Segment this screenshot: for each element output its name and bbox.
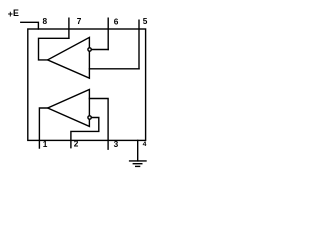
wire op-amp B inverting input to pin 2 — [71, 118, 99, 148]
op-amp B (bottom, points left) — [48, 90, 90, 127]
svg-text:6: 6 — [114, 17, 119, 27]
svg-text:1: 1 — [43, 139, 48, 149]
inverting bubble op-amp A — [88, 48, 91, 51]
wire op-amp A non-inverting input to pin 5 — [89, 68, 139, 70]
svg-text:5: 5 — [143, 16, 148, 26]
wire op-amp A output loop to pin 7 — [39, 38, 69, 60]
svg-text:3: 3 — [114, 139, 119, 149]
wire op-amp A inverting input to pin 6 — [92, 49, 109, 51]
svg-text:E: E — [13, 8, 19, 18]
wire op-amp B non-inverting input to pin 3 — [89, 99, 108, 150]
pin 4 stub to ground — [137, 140, 139, 161]
svg-text:7: 7 — [77, 16, 82, 26]
op-amp A (top, points left) — [48, 37, 90, 78]
wire +E to pin 8 — [21, 22, 39, 29]
pin 6 stub — [107, 18, 109, 49]
svg-text:4: 4 — [143, 141, 147, 148]
IC package outline — [28, 29, 146, 140]
inverting bubble op-amp B — [88, 116, 91, 119]
ground — [130, 160, 146, 162]
svg-text:2: 2 — [74, 139, 79, 149]
pin 5 stub — [138, 20, 140, 69]
svg-text:8: 8 — [43, 16, 48, 26]
wire op-amp B output to pin 1 — [39, 108, 47, 148]
pin 7 stub — [68, 18, 70, 38]
